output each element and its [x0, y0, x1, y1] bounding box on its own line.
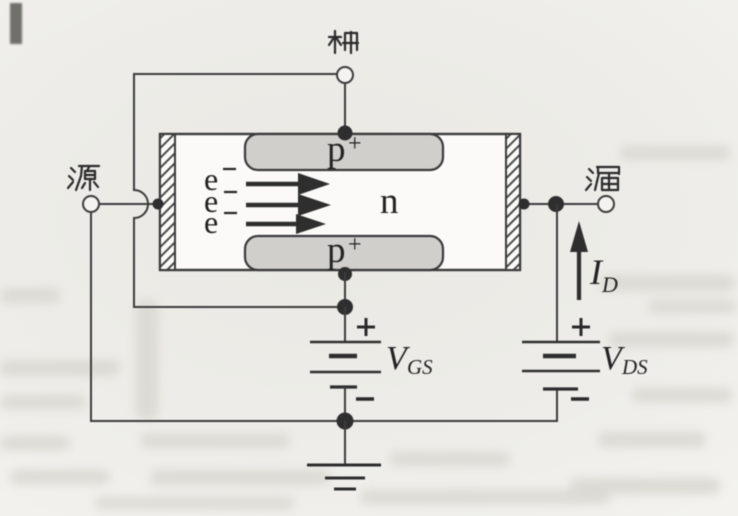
- battery VDS minus sign: [571, 397, 589, 400]
- battery VGS plus sign: [357, 318, 375, 336]
- battery VGS plate long 1: [310, 341, 381, 344]
- terminal: gate circle: [337, 67, 353, 83]
- battery VDS plus sign: [572, 318, 590, 336]
- wire: device right edge to drain circle: [520, 203, 598, 205]
- device body rectangle: [160, 134, 520, 270]
- wire: ground node to ground symbol: [344, 421, 346, 465]
- electron arrow 3: [246, 222, 300, 227]
- svg-text:p: p: [327, 230, 346, 271]
- p+ region bottom: [245, 236, 443, 270]
- wire: device bottom to VGS node: [344, 272, 346, 307]
- terminal: source circle: [83, 196, 99, 212]
- svg-text:n: n: [380, 181, 399, 222]
- left hatched contact: [160, 134, 175, 270]
- wire: gate circle to device top: [344, 83, 346, 134]
- battery VDS plate long 2: [522, 370, 600, 373]
- junction dot: drain node: [548, 196, 564, 212]
- battery VGS plate short 1: [329, 354, 357, 359]
- svg-text:DS: DS: [621, 355, 648, 379]
- svg-text:D: D: [601, 272, 618, 297]
- wire: VGS node to battery: [344, 307, 346, 342]
- right hatched contact: [506, 134, 520, 270]
- junction dot: device bottom: [338, 267, 352, 281]
- ground symbol: [307, 464, 381, 467]
- battery VGS plate long 2: [310, 371, 381, 374]
- label gate (Chinese shan): [329, 31, 358, 53]
- battery VGS minus sign: [356, 397, 374, 400]
- electron arrow 2: [246, 203, 302, 208]
- p+ region top: [245, 134, 443, 170]
- electron arrow 1: [246, 182, 302, 187]
- battery VGS plate short 2: [330, 385, 357, 388]
- label source (Chinese yuan): [68, 166, 99, 190]
- svg-text:GS: GS: [407, 355, 433, 379]
- wire: VGS battery to ground rail: [344, 387, 346, 421]
- junction dot: ground node: [337, 413, 354, 430]
- battery VDS plate short 1: [543, 354, 576, 359]
- junction dot: VGS top node: [337, 299, 353, 315]
- wire: drain node to VDS battery: [556, 204, 558, 342]
- wire: source circle to device left edge: [99, 203, 157, 205]
- svg-text:e: e: [204, 204, 218, 240]
- junction dot: drain contact: [519, 199, 530, 210]
- wire: gate loop (gate circle left, down left side with hop, to VGS node): [134, 74, 345, 307]
- battery VDS plate short 2: [543, 387, 578, 390]
- junction dot: source contact: [153, 199, 164, 210]
- junction dot: gate-device top: [338, 126, 353, 141]
- battery VDS plate long 1: [522, 341, 600, 344]
- current ID arrow: [577, 247, 581, 300]
- bottom rail wire: [91, 213, 557, 421]
- svg-text:+: +: [348, 232, 362, 258]
- label drain (Chinese lou): [586, 167, 619, 190]
- terminal: drain circle: [598, 196, 614, 212]
